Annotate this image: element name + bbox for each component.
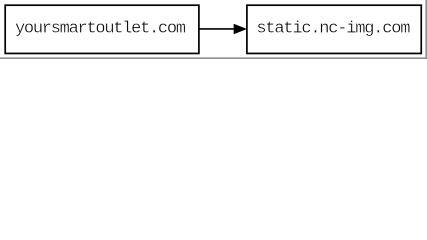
svg-text:static.nc-img.com: static.nc-img.com [256, 20, 410, 39]
svg-text:yoursmartoutlet.com: yoursmartoutlet.com [15, 20, 186, 39]
